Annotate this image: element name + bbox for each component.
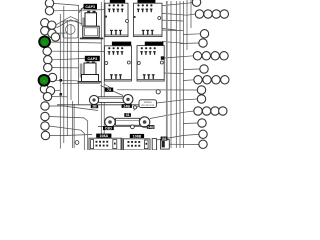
wire drop [122, 138, 124, 150]
terminal circle [200, 30, 208, 38]
left connector terminal circles [40, 0, 59, 140]
harness branch lines (peak) [57, 17, 79, 25]
wire [49, 126, 84, 150]
relay module U2 side tick [134, 16, 136, 18]
green ground terminal G1 [39, 36, 50, 47]
terminal circle [45, 0, 53, 7]
terminal circle [48, 21, 56, 29]
terminal circle [199, 130, 207, 138]
harness branch lines [57, 20, 83, 28]
terminal circle [212, 76, 220, 84]
relay module U4 stub [161, 56, 165, 60]
screw [156, 90, 160, 94]
svg-text:PROTECTOR: PROTECTOR [141, 105, 155, 107]
splice stub [60, 79, 63, 82]
svg-text:C8D: C8D [105, 126, 113, 130]
terminal circle [41, 102, 49, 110]
relay module U1 screw [126, 20, 129, 23]
connector CN2 title 108B [130, 134, 144, 138]
terminal circle [41, 27, 49, 35]
fusible link FL2 label 41 [124, 113, 131, 117]
bus line R5 [182, 1, 184, 148]
small box right of CN2 [152, 139, 156, 150]
wire [164, 56, 193, 58]
wire [54, 10, 105, 11]
capacitor C1 holder inner [84, 28, 97, 36]
screw [133, 106, 136, 109]
connector CN1 title 108A [96, 134, 111, 138]
terminal circle [51, 33, 59, 41]
bus line C2 [103, 0, 105, 140]
horizontal feed y83.7 [62, 83, 100, 85]
terminal circle [41, 122, 49, 130]
capacitor C2 base plate [78, 81, 102, 83]
svg-text:CAP3: CAP3 [85, 5, 95, 9]
bolt bracket with screw [63, 21, 78, 38]
terminal circle [219, 107, 227, 115]
terminal circle [212, 10, 220, 18]
fusible link FL2 bar [116, 118, 140, 125]
connector CN1 pin grid [96, 141, 109, 147]
svg-text:11: 11 [42, 79, 45, 83]
relay module U4 screws [137, 62, 140, 65]
relay module U3 body [105, 46, 132, 81]
wire [169, 143, 199, 145]
wire [183, 122, 197, 125]
wire [157, 99, 198, 103]
bus line L5 [78, 5, 80, 105]
screw [75, 141, 79, 145]
relay module U1 title [110, 0, 125, 3]
terminal circle [204, 10, 212, 18]
capacitor C1 body [85, 13, 97, 26]
terminal circle row [194, 76, 202, 84]
connector CN2 pin grid [128, 141, 141, 147]
bus line R6 [186, 0, 188, 50]
svg-text:41: 41 [126, 113, 130, 117]
bus line R2 [170, 1, 172, 148]
relay module U1 side tick [105, 16, 107, 18]
terminal circle row [193, 52, 201, 60]
capacitor C1 holder [83, 26, 99, 37]
bus line L3 [66, 20, 68, 136]
fusible link FL2 right ring [139, 117, 149, 127]
relay module U2 title [138, 0, 156, 3]
wire [49, 106, 98, 111]
terminal circle [192, 0, 200, 6]
terminal circle [199, 39, 207, 47]
terminal circle [41, 19, 49, 27]
fusible link FL1 label left 2B [91, 105, 98, 109]
connector CN1 left bar [91, 140, 94, 149]
bus line L4b [71, 101, 73, 148]
fusible link FL2 label left C8D [103, 126, 114, 130]
capacitor C1 label CAP3 [84, 4, 98, 9]
wire [52, 96, 68, 98]
wire [183, 33, 200, 36]
splice stub [60, 93, 63, 96]
fusible link FL1 label right 24B [122, 104, 132, 108]
capacitor C2 body [84, 63, 96, 75]
bus line L4 [70, 24, 72, 100]
terminal circle [220, 52, 228, 60]
terminal circle [197, 86, 205, 94]
label G8 [161, 137, 168, 141]
node label 73 [105, 88, 113, 92]
wire [55, 90, 61, 92]
terminal circle [41, 131, 49, 139]
wire [117, 89, 197, 91]
wire [150, 111, 194, 119]
diagonal feed [104, 84, 112, 89]
wire [158, 28, 176, 30]
connector CN2 right bar [145, 140, 149, 149]
svg-text:108B: 108B [133, 134, 142, 138]
bus line L1 [59, 14, 61, 149]
bus line C1 [100, 2, 102, 140]
fusible link FL1 mounting plate [57, 104, 140, 106]
terminal circle [197, 95, 205, 103]
wire [180, 42, 199, 45]
capacitor C2 holder [82, 75, 99, 83]
wire [164, 72, 183, 75]
wire [50, 135, 92, 136]
fusible link FL2 label right 24B [147, 125, 155, 129]
terminal circle [221, 76, 229, 84]
terminal circle [211, 52, 219, 60]
wire drop between connectors [121, 138, 123, 150]
relay module U2 pins [137, 4, 153, 12]
fusible link FL2 base line [98, 125, 153, 127]
relay module U2 screw [158, 17, 161, 20]
capacitor C1 gray shade [82, 18, 85, 34]
right connector terminal circles [192, 0, 229, 149]
relay module U4 bottom pins [143, 74, 155, 79]
connector CN1 right bar [113, 140, 117, 149]
svg-text:WIRING: WIRING [144, 102, 152, 104]
wire from connector pin row to bus (top left) [54, 3, 79, 5]
wire module2 to R circle [158, 2, 193, 6]
svg-text:24B: 24B [123, 104, 130, 108]
relay module U2 body [134, 3, 163, 36]
fusible link FL1 right ring [123, 95, 133, 105]
fusible link FL1 left ring [89, 95, 98, 104]
svg-text:G8: G8 [162, 137, 167, 141]
relay module U2 bottom pins [142, 30, 154, 35]
terminal circle [202, 107, 210, 115]
svg-text:108A: 108A [100, 134, 109, 138]
wire [183, 68, 199, 71]
relay module U3 title [112, 42, 131, 46]
bus line R1 thick gray [166, 1, 168, 148]
terminal circle [40, 85, 48, 93]
relay module U1 body [105, 3, 128, 36]
wire [158, 13, 195, 15]
terminal circle [48, 73, 56, 81]
note box leader [134, 106, 140, 111]
terminal circle [41, 112, 49, 120]
wire [52, 67, 79, 69]
relay module U4 pins [140, 47, 156, 55]
terminal circle [202, 52, 210, 60]
terminal circle [44, 63, 52, 71]
terminal circle [46, 87, 54, 95]
capacitor C1 terminal ticks [87, 11, 95, 13]
relay module U4 title [145, 42, 164, 46]
terminal circle [43, 47, 51, 55]
wire [51, 50, 104, 52]
bus line L6 [80, 8, 82, 26]
screw [131, 125, 135, 129]
svg-text:24B: 24B [147, 125, 154, 129]
svg-text:11: 11 [43, 40, 46, 44]
terminal circle [211, 107, 219, 115]
relay module U1 bottom pins [110, 30, 122, 35]
wire [162, 42, 183, 44]
terminal circle [198, 119, 206, 127]
relay module U3 bottom pins [110, 74, 122, 79]
terminal circle row [194, 107, 202, 115]
wire [52, 59, 85, 60]
bus line L2 [63, 6, 65, 143]
relay module U4 body [137, 46, 164, 81]
connector CN1 body [89, 138, 121, 150]
bus line L4c [73, 104, 75, 148]
terminal circle [43, 92, 51, 100]
fusible link FL1 bar [99, 97, 124, 103]
wire [49, 117, 87, 151]
capacitor C2 label CAP3 [85, 56, 100, 61]
capacitor C2 gray shade [80, 64, 83, 78]
wire from green terminal G1 [50, 42, 102, 43]
relay module U1 pins [108, 4, 124, 12]
svg-text:CAP3: CAP3 [88, 57, 98, 61]
capacitor C1 base plate [80, 38, 104, 40]
relay module U3 screws [105, 62, 108, 65]
bus line R3 [175, 1, 177, 148]
terminal circle [45, 7, 53, 15]
terminal circle [220, 10, 228, 18]
capacitor C1 leader [79, 7, 84, 13]
terminal circle [44, 56, 52, 64]
wire from green terminal G2 [49, 79, 78, 82]
wire [183, 79, 193, 82]
fusible link FL2 left ring [105, 117, 115, 127]
terminal circle [48, 29, 56, 37]
diagonal feeds to module row 2 [101, 86, 124, 96]
connector CN2 body [124, 139, 151, 150]
wire [160, 29, 183, 32]
svg-text:73: 73 [107, 88, 111, 92]
terminal circle [203, 76, 211, 84]
svg-text:2B: 2B [92, 105, 97, 109]
note box (wiring protector) [139, 100, 157, 108]
green ground terminal G2 [39, 75, 50, 86]
terminal circle row [195, 10, 203, 18]
relay box with dark element [161, 140, 170, 150]
wire [56, 32, 67, 34]
wire [157, 134, 199, 140]
wire [158, 20, 183, 21]
terminal circle [199, 140, 207, 148]
capacitor C2 terminal ticks [86, 62, 94, 64]
relay module U3 pins [108, 47, 124, 55]
terminal circle [200, 65, 208, 73]
bus line R7 [190, 0, 192, 28]
bus line R4 [179, 1, 181, 148]
